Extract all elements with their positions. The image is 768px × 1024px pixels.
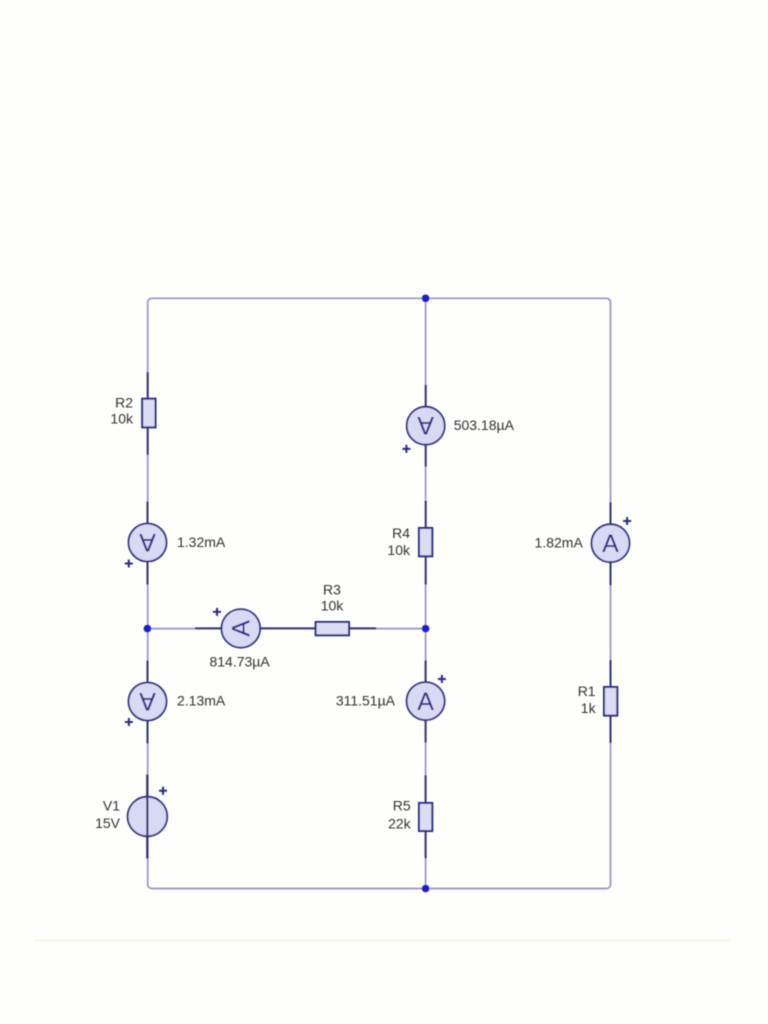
- node bottom (middle/bottom wire junction): [422, 885, 430, 893]
- svg-text:R3: R3: [323, 582, 341, 598]
- svg-text:A: A: [139, 687, 156, 715]
- resistor R4: [387, 501, 432, 585]
- svg-text:22k: 22k: [388, 815, 412, 831]
- svg-text:15V: 15V: [95, 815, 121, 831]
- ammeter A2 2.13mA: [125, 661, 226, 744]
- resistor R5: [388, 775, 432, 858]
- svg-text:10k: 10k: [387, 542, 411, 558]
- ammeter A6 814.73uA (horizontal): [195, 608, 316, 670]
- resistor R3: [316, 582, 377, 636]
- svg-text:R1: R1: [578, 683, 596, 699]
- svg-text:814.73µA: 814.73µA: [209, 654, 270, 670]
- node top (middle/top wire junction): [422, 295, 430, 303]
- svg-text:A: A: [417, 411, 434, 439]
- svg-text:R4: R4: [392, 525, 410, 541]
- svg-text:A: A: [228, 620, 256, 637]
- voltage source V1 15V: [95, 775, 167, 859]
- wire: middle vertical net segments (light): [425, 298, 427, 888]
- svg-text:R5: R5: [393, 798, 411, 814]
- wire: horizontal middle row light segments: [147, 628, 425, 630]
- node A (left middle junction): [144, 625, 152, 633]
- wire: outer loop (light nets): [148, 298, 611, 888]
- svg-text:503.18µA: 503.18µA: [454, 417, 515, 433]
- svg-text:A: A: [602, 530, 619, 558]
- svg-text:311.51µA: 311.51µA: [336, 693, 396, 709]
- svg-text:1.82mA: 1.82mA: [535, 535, 584, 551]
- resistor R1: [578, 660, 618, 743]
- node B (center junction): [422, 625, 430, 633]
- svg-text:A: A: [139, 528, 156, 556]
- svg-text:A: A: [417, 688, 434, 716]
- svg-text:10k: 10k: [110, 410, 134, 426]
- svg-text:V1: V1: [103, 797, 120, 813]
- svg-text:1.32mA: 1.32mA: [177, 534, 226, 550]
- ammeter A3 503.18uA: [402, 385, 514, 467]
- ammeter A5 1.82mA: [535, 502, 632, 585]
- ammeter A4 311.51uA: [336, 660, 446, 742]
- svg-text:1k: 1k: [581, 700, 597, 716]
- ammeter A1 1.32mA: [125, 502, 226, 585]
- resistor R2: [110, 372, 155, 455]
- svg-text:10k: 10k: [321, 598, 345, 614]
- svg-text:2.13mA: 2.13mA: [177, 693, 226, 709]
- svg-text:R2: R2: [115, 394, 133, 410]
- faint divider line near page bottom: [35, 939, 731, 941]
